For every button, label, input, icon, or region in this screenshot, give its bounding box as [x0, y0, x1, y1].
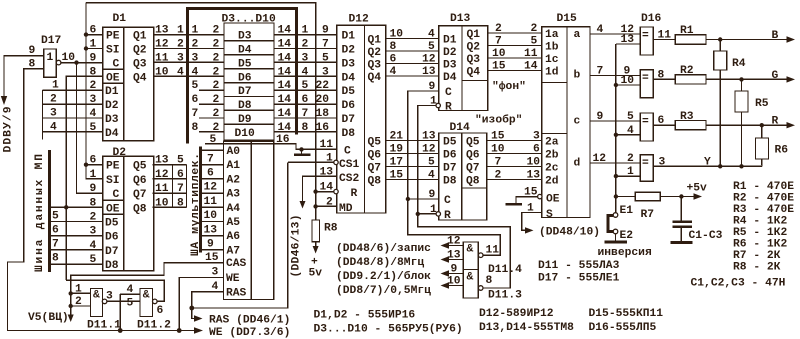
- bit cell right rail: [186, 165, 188, 208]
- svg-text:5: 5: [627, 111, 634, 123]
- arrow WE bus: [194, 327, 203, 333]
- svg-text:6: 6: [658, 115, 665, 127]
- svg-text:Q8: Q8: [133, 203, 147, 215]
- mux D15 divider: [566, 27, 568, 218]
- memory block thick frame right: [295, 7, 298, 134]
- svg-text:5v: 5v: [309, 268, 323, 280]
- svg-text:5: 5: [322, 52, 329, 64]
- svg-text:2: 2: [213, 25, 220, 37]
- wire D14 Q5 to D15: [487, 140, 542, 142]
- node PE D2: [84, 163, 88, 167]
- svg-text:D14: D14: [450, 122, 471, 134]
- wire R4 leads: [719, 40, 721, 52]
- svg-text:15: 15: [390, 170, 404, 182]
- svg-text:D1: D1: [105, 86, 119, 98]
- node inv net R7: [614, 194, 618, 198]
- svg-text:4: 4: [428, 170, 435, 182]
- wire R4 lower lead: [719, 70, 721, 166]
- gate D11.2 body: [140, 289, 153, 317]
- svg-text:13: 13: [621, 34, 635, 46]
- arrow DDBU/9 down: [1, 96, 7, 105]
- svg-text:R3 - 470E: R3 - 470E: [733, 204, 794, 216]
- ground bar: [294, 153, 310, 156]
- svg-text:12: 12: [204, 182, 218, 194]
- svg-text:+5v: +5v: [687, 183, 708, 195]
- svg-text:CS1: CS1: [339, 159, 360, 171]
- svg-text:7: 7: [52, 239, 59, 251]
- wire D16.3 out: [653, 124, 675, 126]
- svg-text:2: 2: [495, 23, 502, 35]
- resistor R4 body: [714, 51, 727, 70]
- wire D13 Q3 to D15: [488, 57, 542, 59]
- register D13 Q subbox line: [462, 80, 488, 82]
- svg-text:R2: R2: [680, 65, 694, 77]
- svg-text:C: C: [344, 145, 351, 157]
- svg-text:2: 2: [75, 296, 82, 308]
- xor D16.2 body: [640, 70, 653, 98]
- svg-text:RAS (DD46/1): RAS (DD46/1): [209, 315, 290, 327]
- svg-text:6: 6: [207, 168, 214, 180]
- svg-text:D16-555ЛП5: D16-555ЛП5: [589, 322, 657, 334]
- svg-text:D7: D7: [105, 246, 119, 258]
- svg-text:2: 2: [90, 212, 97, 224]
- svg-text:Q7: Q7: [368, 163, 382, 175]
- wire D1 PE stub: [86, 34, 103, 36]
- wire D14 Q7 to D15: [487, 166, 542, 168]
- wire out a to D16.1: [590, 33, 640, 35]
- svg-text:D4: D4: [238, 45, 252, 57]
- ground stub: [301, 149, 303, 153]
- svg-text:WE: WE: [226, 273, 240, 285]
- wire D16.3 input 4: [616, 134, 640, 136]
- svg-text:(DD8/7)/0,5Мгц: (DD8/7)/0,5Мгц: [336, 285, 431, 297]
- wire WE to bottom bus: [179, 278, 223, 331]
- svg-text:3: 3: [533, 131, 540, 143]
- node R6 top: [760, 123, 764, 127]
- arrow input 10: [441, 282, 450, 288]
- svg-text:D17 - 555ЛЕ1: D17 - 555ЛЕ1: [538, 273, 620, 285]
- gate D11.4 output bubble: [478, 253, 483, 258]
- node inv net g3: [614, 133, 618, 137]
- wire D16.4 input 1: [616, 175, 640, 177]
- wire bus to D1 input D1: [43, 89, 103, 91]
- svg-text:10: 10: [204, 210, 218, 222]
- svg-text:4: 4: [390, 66, 397, 78]
- arrow input 13: [441, 256, 450, 262]
- resistor R7 body: [635, 192, 660, 200]
- svg-text:C: C: [113, 58, 120, 70]
- svg-text:19: 19: [390, 144, 404, 156]
- svg-text:Q2: Q2: [368, 47, 382, 59]
- gate D11.2 output bubble: [153, 299, 158, 304]
- svg-text:Q2: Q2: [133, 45, 147, 57]
- svg-text:R: R: [351, 188, 358, 200]
- register D2 control subbox line: [103, 199, 124, 201]
- svg-text:C: C: [444, 195, 451, 207]
- svg-text:12: 12: [155, 169, 169, 181]
- svg-text:1a: 1a: [545, 29, 559, 41]
- wire D13 Q4 to D15: [488, 70, 542, 72]
- wire OE input: [516, 197, 538, 203]
- node WE bus at address box branch: [177, 328, 182, 333]
- svg-text:V5(ВЦ): V5(ВЦ): [28, 312, 69, 324]
- wire D1 Q2 out: [154, 48, 224, 50]
- svg-text:D3: D3: [342, 58, 356, 70]
- wire D11.1 input 1: [71, 292, 91, 294]
- wire OE net D1 OE to D2 OE to D11.2 out: [66, 76, 103, 280]
- svg-text:A2: A2: [227, 174, 241, 186]
- svg-text:2: 2: [213, 52, 220, 64]
- svg-text:14: 14: [278, 66, 292, 78]
- wire D13 Q2 to D15: [488, 45, 542, 47]
- gate D17 body: [44, 49, 57, 77]
- node WE bus at D11 branch: [118, 328, 123, 333]
- wire row8 in-box: [199, 131, 224, 133]
- pin cell rail: [199, 147, 202, 253]
- wire D16.2 input 10: [616, 84, 640, 86]
- svg-text:(DD9.2/1)/блок: (DD9.2/1)/блок: [336, 270, 431, 283]
- wire D12 Q4 to D13: [386, 75, 439, 77]
- arrow R7 5v: [694, 193, 703, 199]
- svg-text:D11.4: D11.4: [488, 264, 522, 276]
- capacitor C1-C3 plate top: [673, 220, 692, 223]
- svg-text:D4: D4: [105, 128, 119, 140]
- svg-text:Q6: Q6: [133, 175, 147, 187]
- wire D17 input 8: [8, 69, 44, 330]
- svg-text:5: 5: [192, 80, 199, 92]
- svg-text:OE: OE: [106, 72, 120, 84]
- svg-text:D11.3: D11.3: [488, 290, 522, 302]
- svg-text:8: 8: [52, 253, 59, 265]
- svg-text:7: 7: [495, 36, 502, 48]
- svg-text:Q7: Q7: [466, 163, 480, 175]
- node OE net at D2 OE: [64, 205, 68, 209]
- xor D16.1 body: [640, 27, 653, 55]
- svg-text:D15-555КП11: D15-555КП11: [589, 308, 664, 320]
- svg-text:1: 1: [47, 52, 54, 64]
- svg-text:Q4: Q4: [133, 72, 147, 84]
- wire memory IO row to D12 C: [205, 144, 337, 150]
- svg-text:6: 6: [90, 25, 97, 37]
- wire RAS to CS1 riser: [192, 162, 288, 308]
- wire D11.3 input 10: [447, 285, 463, 287]
- wire bus to D2 input D8: [50, 263, 103, 265]
- svg-text:Q6: Q6: [466, 150, 480, 162]
- svg-text:(DD48/6)/запис: (DD48/6)/запис: [336, 243, 431, 255]
- svg-text:6: 6: [52, 225, 59, 237]
- register D2 body: [103, 156, 154, 270]
- svg-text:8: 8: [90, 66, 97, 78]
- svg-text:9: 9: [451, 264, 458, 276]
- wire row5 to D12: [274, 89, 337, 91]
- svg-text:Q4: Q4: [368, 72, 382, 84]
- register D14 body: [439, 133, 487, 220]
- arrow S source: [525, 227, 534, 233]
- register D2 divider: [123, 156, 125, 270]
- wire row7 to D12: [274, 117, 337, 119]
- svg-text:13: 13: [527, 170, 541, 182]
- wire D11.4 input 12: [447, 245, 463, 247]
- svg-text:D8: D8: [342, 128, 356, 140]
- svg-text:SI: SI: [106, 45, 120, 57]
- svg-text:D6: D6: [238, 72, 252, 84]
- wire R input: [316, 191, 335, 193]
- svg-text:Q5: Q5: [368, 137, 382, 149]
- svg-text:1c: 1c: [545, 54, 559, 66]
- svg-text:2: 2: [177, 39, 184, 51]
- svg-text:E2: E2: [620, 230, 634, 242]
- svg-text:Q1: Q1: [368, 35, 382, 47]
- register D1 divider: [123, 27, 125, 141]
- wire inv net to R7: [616, 196, 636, 198]
- ground bar OE: [506, 203, 523, 206]
- wire D12 Q8 to D14: [386, 179, 439, 181]
- svg-text:13: 13: [155, 155, 169, 167]
- svg-text:D1,D2 - 555ИР16: D1,D2 - 555ИР16: [314, 310, 416, 322]
- svg-text:12: 12: [155, 39, 169, 51]
- svg-text:R4: R4: [732, 58, 746, 70]
- svg-text:R3: R3: [680, 111, 694, 123]
- svg-text:8: 8: [192, 122, 199, 134]
- svg-text:2: 2: [302, 39, 309, 51]
- svg-text:13: 13: [422, 66, 436, 78]
- svg-text:Q6: Q6: [368, 150, 382, 162]
- svg-text:D15: D15: [557, 13, 578, 25]
- wire D11.2 out to OE net: [66, 280, 164, 301]
- svg-text:5: 5: [428, 41, 435, 53]
- svg-text:13: 13: [204, 224, 218, 236]
- svg-text:4: 4: [627, 125, 634, 137]
- memory block thick frame top: [186, 7, 298, 10]
- svg-text:3: 3: [90, 226, 97, 238]
- svg-text:R8 - 2К: R8 - 2К: [733, 262, 781, 274]
- wire E2 to ground: [615, 234, 617, 241]
- svg-text:A4: A4: [227, 203, 241, 215]
- wire R3 to R: [706, 124, 789, 126]
- svg-text:1: 1: [302, 25, 309, 37]
- arrow G: [787, 76, 796, 82]
- svg-text:17: 17: [390, 157, 404, 169]
- svg-text:D3: D3: [105, 114, 119, 126]
- svg-text:D6: D6: [443, 150, 457, 162]
- svg-text:1: 1: [627, 166, 634, 178]
- node C net: [406, 197, 410, 201]
- wire D1 Q4 out: [154, 75, 224, 77]
- svg-text:Q2: Q2: [467, 42, 481, 54]
- svg-text:14: 14: [278, 94, 292, 106]
- svg-text:a: a: [574, 29, 581, 41]
- svg-text:8: 8: [390, 41, 397, 53]
- svg-text:3: 3: [90, 94, 97, 106]
- svg-text:14: 14: [524, 61, 538, 73]
- jumper E2 contact: [613, 229, 618, 234]
- svg-text:12: 12: [422, 54, 436, 66]
- mux D15 left sep 1: [542, 82, 567, 84]
- wire D2 PE stub: [86, 164, 103, 166]
- gate D17 output bubble: [56, 60, 61, 65]
- memory row sep 3: [224, 68, 274, 70]
- svg-text:Q4: Q4: [467, 67, 481, 79]
- svg-text:D5: D5: [238, 58, 252, 70]
- wire A5 stub: [201, 221, 224, 223]
- wire bus to D1 input D3: [43, 117, 103, 119]
- svg-text:2: 2: [213, 39, 220, 51]
- node R pullup: [313, 189, 317, 193]
- svg-text:3: 3: [177, 52, 184, 64]
- wire branch down to WE bus: [119, 294, 121, 330]
- svg-text:R7: R7: [641, 209, 655, 221]
- bubble R: [334, 189, 338, 193]
- svg-text:2: 2: [531, 23, 538, 35]
- svg-text:"фон": "фон": [492, 80, 526, 93]
- wire D12 Q2 to D13: [386, 50, 439, 52]
- svg-text:1: 1: [75, 283, 82, 295]
- gate D11.4 body: [463, 242, 478, 270]
- arrow R8 5v: [313, 246, 319, 254]
- wire row4 to D12: [274, 75, 337, 77]
- svg-text:7: 7: [192, 108, 199, 120]
- svg-text:R6 - 1К2: R6 - 1К2: [733, 239, 787, 251]
- svg-text:SI: SI: [106, 175, 120, 187]
- svg-text:10: 10: [390, 29, 404, 41]
- svg-text:14: 14: [278, 25, 292, 37]
- wire D16.2 out: [653, 78, 675, 80]
- wire D11.3 input 9: [447, 273, 463, 275]
- bubble D13 R: [436, 103, 440, 107]
- svg-text:11: 11: [155, 52, 169, 64]
- memory row sep 2: [224, 54, 274, 56]
- svg-text:R6: R6: [775, 145, 789, 157]
- svg-text:11: 11: [204, 196, 218, 208]
- register D1 control subbox line: [103, 68, 124, 70]
- arrow CS2 source down: [300, 201, 306, 209]
- svg-text:A1: A1: [227, 160, 241, 172]
- wire top pullup line: [86, 3, 316, 220]
- wire D1 Q3 out: [154, 61, 224, 63]
- resistor R8 body: [312, 220, 320, 242]
- svg-text:Q5: Q5: [133, 161, 147, 173]
- svg-text:14: 14: [278, 39, 292, 51]
- svg-text:14: 14: [278, 52, 292, 64]
- svg-text:2d: 2d: [545, 176, 559, 188]
- wire C input: [296, 148, 337, 150]
- wire D13 C: [408, 91, 439, 199]
- wire D17 out down to D2 C: [77, 63, 103, 194]
- wire MD input: [316, 205, 337, 207]
- node R5 at Y: [739, 164, 743, 168]
- wire D16.1 out: [653, 39, 675, 41]
- svg-text:11: 11: [486, 245, 500, 257]
- wire PE-SI chain vertical: [86, 3, 103, 179]
- svg-text:9: 9: [90, 183, 97, 195]
- svg-text:R4 - 1К2: R4 - 1К2: [733, 216, 787, 228]
- wire D12 Q5 to D14: [386, 140, 439, 142]
- wire row5 in-box: [199, 89, 224, 91]
- svg-text:A5: A5: [227, 217, 241, 229]
- svg-text:D10: D10: [235, 128, 256, 140]
- capacitor C1-C3 lead top: [680, 197, 682, 221]
- inversion net vertical: [615, 44, 617, 213]
- address box body: [224, 141, 274, 299]
- wire R5 upper lead: [741, 79, 743, 91]
- node SI D1: [84, 46, 88, 50]
- svg-text:6: 6: [192, 94, 199, 106]
- arrow RAS: [194, 315, 203, 321]
- svg-text:c: c: [574, 116, 581, 128]
- svg-text:2: 2: [627, 153, 634, 165]
- svg-text:(DD46/13): (DD46/13): [291, 215, 303, 278]
- register D1 body: [103, 27, 154, 141]
- svg-text:5: 5: [90, 122, 97, 134]
- svg-text:10: 10: [155, 197, 169, 209]
- svg-text:12: 12: [447, 236, 461, 248]
- resistor R5 body: [735, 91, 748, 112]
- wire D11.2 input 4: [120, 293, 140, 295]
- svg-text:OE: OE: [106, 203, 120, 215]
- wire D16.4 out Y line: [653, 165, 762, 167]
- arrow V5 down: [68, 315, 74, 323]
- svg-text:5: 5: [531, 36, 538, 48]
- wire R8 to 5v: [315, 242, 317, 247]
- gate D11.3 output bubble: [478, 286, 483, 291]
- svg-text:1d: 1d: [545, 67, 559, 79]
- mux D15 body: [542, 27, 590, 218]
- svg-text:1: 1: [90, 39, 97, 51]
- svg-text:5: 5: [52, 211, 59, 223]
- wire R1 to B: [706, 39, 789, 41]
- svg-text:PE: PE: [106, 161, 120, 173]
- svg-text:R5: R5: [755, 98, 769, 110]
- svg-text:D1: D1: [342, 31, 356, 43]
- svg-text:D4: D4: [443, 72, 457, 84]
- svg-text:D17: D17: [41, 35, 62, 47]
- svg-text:D9: D9: [238, 114, 252, 126]
- svg-text:13: 13: [155, 25, 169, 37]
- ground bar E2: [605, 241, 628, 244]
- wire A0 stub: [201, 149, 224, 151]
- mux D15 left sep 2: [542, 133, 567, 135]
- svg-text:&: &: [143, 290, 150, 302]
- svg-text:11: 11: [658, 30, 672, 42]
- node junction D17 out branch to D2 C: [74, 60, 78, 64]
- svg-text:11: 11: [155, 183, 169, 195]
- register D13 body: [439, 26, 488, 111]
- wire D16.1 input 13: [616, 43, 640, 45]
- wire row1 to D12: [274, 34, 337, 36]
- svg-text:D5: D5: [342, 86, 356, 98]
- wire out b to D16.2: [590, 75, 640, 77]
- svg-text:C1,C2,C3 - 47Н: C1,C2,C3 - 47Н: [691, 278, 786, 290]
- wire D2 Q8 out to A4: [153, 206, 187, 208]
- svg-text:4: 4: [597, 24, 604, 36]
- wire RAS out: [192, 292, 224, 308]
- svg-text:10: 10: [527, 157, 541, 169]
- svg-text:4: 4: [127, 284, 134, 296]
- svg-text:Q1: Q1: [133, 31, 147, 43]
- wire D11.1 out to D11.2 pin5: [107, 300, 140, 302]
- svg-text:R1: R1: [680, 25, 694, 37]
- wire bus to D2 input D6: [50, 235, 103, 237]
- xor D16.4 body: [640, 155, 653, 182]
- svg-text:D2: D2: [443, 47, 457, 59]
- buffer D12 divider: [364, 25, 366, 213]
- register D2 OE subbox line: [103, 213, 124, 215]
- wire R net to D11.3 out: [418, 214, 510, 288]
- svg-text:WE (DD7.3/6): WE (DD7.3/6): [209, 327, 290, 339]
- wire A6 stub: [201, 235, 224, 237]
- svg-text:12: 12: [422, 144, 436, 156]
- resistor R3 body: [675, 121, 706, 130]
